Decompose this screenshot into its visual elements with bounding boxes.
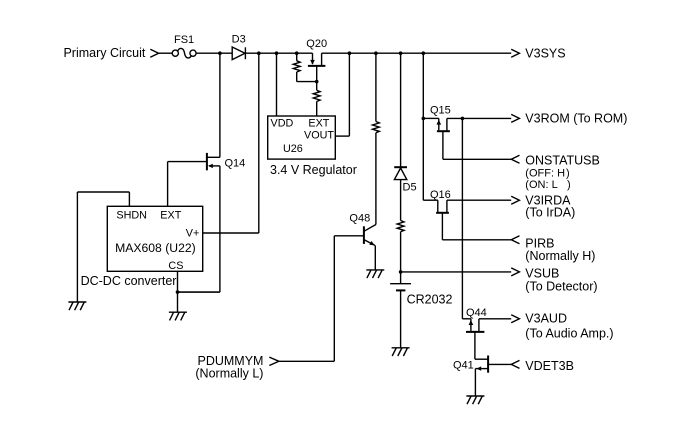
svg-text:V3AUD: V3AUD [525, 312, 567, 326]
svg-text:(Normally L): (Normally L) [195, 366, 263, 380]
svg-text:CS: CS [168, 260, 183, 272]
svg-text:Primary Circuit: Primary Circuit [63, 46, 145, 60]
svg-text:CR2032: CR2032 [407, 293, 453, 307]
svg-text:Q15: Q15 [430, 105, 451, 117]
svg-text:DC-DC converter: DC-DC converter [81, 274, 177, 288]
svg-text:VDD: VDD [271, 118, 294, 130]
svg-text:(To Audio Amp.): (To Audio Amp.) [525, 327, 613, 341]
svg-text:SHDN: SHDN [116, 209, 147, 221]
svg-text:): ) [566, 167, 570, 179]
svg-text:D5: D5 [403, 182, 417, 194]
svg-text:V3SYS: V3SYS [525, 46, 565, 60]
svg-text:(ON: L: (ON: L [525, 179, 557, 191]
svg-text:V+: V+ [186, 228, 200, 240]
svg-text:(Normally H): (Normally H) [525, 249, 595, 263]
svg-text:Q14: Q14 [225, 158, 246, 170]
svg-text:3.4 V Regulator: 3.4 V Regulator [270, 163, 357, 177]
svg-text:(OFF: H: (OFF: H [525, 167, 565, 179]
svg-text:Q41: Q41 [453, 359, 474, 371]
svg-text:ONSTATUSB: ONSTATUSB [525, 154, 600, 168]
svg-text:D3: D3 [232, 34, 246, 46]
svg-text:Q16: Q16 [430, 189, 451, 201]
svg-text:EXT: EXT [160, 209, 181, 221]
svg-text:Q48: Q48 [349, 213, 370, 225]
svg-text:EXT: EXT [308, 118, 329, 130]
svg-text:FS1: FS1 [174, 34, 194, 46]
svg-text:MAX608 (U22): MAX608 (U22) [115, 241, 196, 255]
svg-text:V3ROM (To ROM): V3ROM (To ROM) [525, 112, 627, 126]
svg-text:VOUT: VOUT [304, 130, 334, 142]
svg-text:Q44: Q44 [466, 307, 487, 319]
svg-text:U26: U26 [283, 143, 303, 155]
svg-text:(To Detector): (To Detector) [525, 279, 597, 293]
svg-text:(To IrDA): (To IrDA) [525, 205, 575, 219]
svg-text:VDET3B: VDET3B [525, 359, 574, 373]
svg-text:Q20: Q20 [306, 38, 327, 50]
svg-text:): ) [567, 179, 571, 191]
